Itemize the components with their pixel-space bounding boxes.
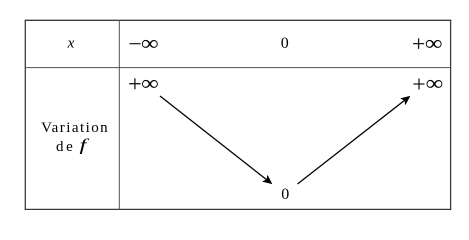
vertical divider between header column and value columns bbox=[118, 20, 120, 209]
svg-text:∞: ∞ bbox=[141, 32, 159, 55]
value +infinity (x row, right): plus sign bbox=[413, 38, 424, 49]
svg-text:0: 0 bbox=[281, 35, 289, 52]
svg-text:∞: ∞ bbox=[141, 72, 159, 95]
svg-text:f: f bbox=[79, 135, 89, 154]
svg-text:0: 0 bbox=[281, 186, 289, 203]
increasing arrow head bbox=[401, 96, 410, 104]
limit +infinity (variation row, top left): plus sign bbox=[129, 78, 140, 89]
decreasing arrow head bbox=[263, 176, 272, 184]
svg-text:∞: ∞ bbox=[426, 72, 444, 95]
svg-text:x: x bbox=[67, 36, 75, 52]
svg-text:∞: ∞ bbox=[425, 32, 443, 55]
table outer border: left edge bbox=[24, 20, 26, 210]
table outer border: right edge bbox=[450, 20, 452, 210]
limit +infinity (variation row, top right): plus sign bbox=[414, 79, 425, 90]
horizontal divider between x row and variation row bbox=[25, 67, 450, 69]
table outer border: bottom edge bbox=[25, 208, 452, 210]
decreasing arrow shaft bbox=[160, 96, 267, 180]
table outer border: top edge bbox=[25, 19, 452, 21]
svg-text:de: de bbox=[56, 139, 75, 155]
svg-text:Variation: Variation bbox=[41, 120, 109, 136]
value -infinity (x row, left): minus bar bbox=[130, 43, 141, 44]
increasing arrow shaft bbox=[298, 100, 406, 184]
